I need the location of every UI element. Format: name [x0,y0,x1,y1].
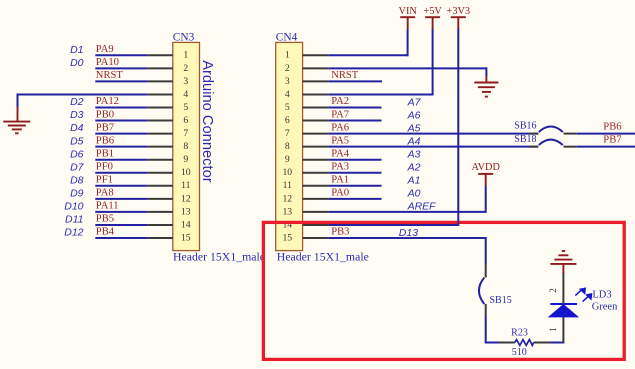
CN3 pin 8 [147,146,173,148]
svg-text:7: 7 [285,128,290,139]
svg-text:SB15: SB15 [490,295,512,306]
svg-text:1: 1 [183,50,188,61]
LED arrows [575,288,591,301]
svg-text:NRST: NRST [96,70,124,81]
svg-text:Arduino Connector: Arduino Connector [199,60,215,183]
svg-text:PA2: PA2 [331,96,349,107]
svg-text:8: 8 [183,141,188,152]
svg-text:Header 15X1_male: Header 15X1_male [173,250,265,264]
svg-text:D7: D7 [70,161,85,173]
wire net PA9 to CN3 pin 1 [95,54,147,56]
svg-text:PB0: PB0 [96,109,114,120]
svg-text:13: 13 [181,206,191,217]
svg-text:D11: D11 [65,214,83,226]
CN3 pin 1 [147,54,173,56]
svg-text:PB1: PB1 [96,148,114,159]
solder bridge SB15 [485,264,487,277]
wire net PA8 to CN3 pin 12 [95,198,147,200]
svg-text:11: 11 [181,180,190,191]
svg-text:A5: A5 [407,122,421,134]
CN3 pin 15 [147,237,173,239]
wire AVDD down [485,186,487,213]
wire corner to R23 [485,342,500,344]
svg-text:PF0: PF0 [96,161,113,172]
ground symbol LED (inverted) [562,250,566,252]
svg-text:4: 4 [285,89,290,100]
svg-text:PB3: PB3 [331,227,349,238]
svg-text:D9: D9 [70,187,84,199]
wire net NRST to CN3 pin 3 [95,80,147,82]
CN3 pin 10 [147,172,173,174]
svg-text:2: 2 [285,63,290,74]
connector CN4 body [276,42,303,250]
svg-text:CN4: CN4 [276,31,298,43]
wire LED anode up [562,317,564,344]
svg-text:PA11: PA11 [96,201,119,212]
svg-text:PA7: PA7 [331,109,349,120]
wire net PA12 to CN3 pin 5 [95,107,147,109]
solder bridge SB18 [530,146,539,148]
ground stub (left) [17,107,19,121]
svg-text:Header 15X1_male: Header 15X1_male [277,250,369,264]
wire VIN down to pin1 [407,29,409,56]
svg-text:D1: D1 [70,44,83,56]
wire net PB5 to CN3 pin 14 [95,224,147,226]
svg-text:14: 14 [181,219,191,230]
svg-text:SB18: SB18 [514,134,536,145]
svg-text:AREF: AREF [407,201,437,213]
svg-text:7: 7 [183,128,188,139]
wire net PA10 to CN3 pin 2 [95,67,147,69]
svg-text:AVDD: AVDD [471,162,500,173]
CN3 pin 13 [147,211,173,213]
wire net PB7 to CN3 pin 7 [95,133,147,135]
svg-text:2: 2 [183,63,188,74]
CN3 pin 7 [147,133,173,135]
wire CN4 pin 3 [329,80,382,82]
svg-text:Green: Green [592,302,618,313]
CN3 pin 3 [147,80,173,82]
CN4 pin 13 [303,211,329,213]
svg-text:6: 6 [285,115,290,126]
svg-text:PA4: PA4 [331,148,350,159]
CN4 pin 2 [303,67,329,69]
CN4 pin 15 [303,237,329,239]
svg-text:R23: R23 [511,327,528,338]
svg-text:D12: D12 [64,227,83,239]
CN4 pin 8 [303,146,329,148]
svg-text:A2: A2 [407,162,421,174]
wire CN4 pin 12 [329,198,382,200]
wire junction down to pin14 row [457,211,459,226]
solder bridge SB16 [530,133,539,135]
svg-text:A6: A6 [407,109,421,121]
svg-text:D2: D2 [70,96,84,108]
svg-text:D0: D0 [70,57,84,69]
CN4 pin 1 [303,54,329,56]
CN4 pin 11 [303,185,329,187]
svg-text:15: 15 [282,232,292,243]
svg-text:D6: D6 [70,148,84,160]
svg-text:PB7: PB7 [96,122,114,133]
svg-text:1: 1 [285,50,290,61]
svg-text:PA8: PA8 [96,188,114,199]
svg-text:10: 10 [181,167,191,178]
CN3 pin 14 [147,224,173,226]
svg-text:9: 9 [285,154,290,165]
wire CN4 pin 4 [329,93,433,95]
svg-text:5: 5 [285,102,290,113]
ground stub (top right) [485,76,487,83]
wire CN4 pin 1 [329,54,408,56]
svg-text:D13: D13 [399,227,418,239]
svg-text:NRST: NRST [331,70,359,81]
svg-text:12: 12 [181,193,191,204]
wire AVDD to +3V3 junction [458,211,485,213]
ground stub (LED) [562,264,564,274]
svg-text:6: 6 [183,115,188,126]
CN4 pin 9 [303,159,329,161]
CN4 pin 5 [303,107,329,109]
svg-text:10: 10 [282,167,292,178]
CN4 pin 14 [303,224,329,226]
svg-text:D4: D4 [70,122,84,134]
wire CN4 pin 6 [329,120,382,122]
wire SB18 to PB7 [577,146,635,148]
connector CN3 body [173,42,200,250]
wire CN4 pin 15 [329,237,486,239]
svg-text:PA5: PA5 [331,135,349,146]
svg-text:CN3: CN3 [173,31,195,43]
svg-text:PA12: PA12 [96,96,119,107]
svg-text:15: 15 [181,232,191,243]
CN4 pin 3 [303,80,329,82]
wire R23 to LED [551,342,564,344]
resistor R23 [499,342,515,344]
wire CN4 pin 10 [329,172,382,174]
wire +3V3 down to AREF row [457,29,459,212]
highlight rectangle [263,222,624,359]
wire CN3 pin4 to ground [18,93,148,95]
svg-text:12: 12 [282,193,292,204]
wire net PB0 to CN3 pin 6 [95,120,147,122]
svg-text:PA0: PA0 [331,188,349,199]
CN4 pin 4 [303,93,329,95]
svg-text:PA10: PA10 [96,57,119,68]
wire CN4 pin 11 [329,185,382,187]
CN4 pin 7 [303,133,329,135]
svg-text:PA3: PA3 [331,161,349,172]
svg-text:3: 3 [183,76,188,87]
svg-text:13: 13 [282,206,292,217]
wire net PB6 to CN3 pin 8 [95,146,147,148]
wire CN4 pin 7 [329,133,539,135]
svg-text:PA9: PA9 [96,44,114,55]
svg-text:3: 3 [285,76,290,87]
svg-text:A0: A0 [407,188,421,200]
wire CN4 pin 13 [329,211,459,213]
wire CN4 pin 9 [329,159,382,161]
svg-text:5: 5 [183,102,188,113]
svg-text:PA1: PA1 [331,175,349,186]
svg-text:8: 8 [285,141,290,152]
svg-text:PB6: PB6 [603,121,621,132]
wire ground drop [17,93,19,107]
svg-text:510: 510 [512,347,527,358]
svg-text:A4: A4 [407,135,421,147]
LED LD3 [549,305,578,317]
wire LED cathode up [562,273,564,304]
CN4 pin 10 [303,172,329,174]
svg-text:PB6: PB6 [96,135,114,146]
svg-text:2: 2 [548,288,558,293]
svg-text:A1: A1 [407,175,421,187]
ground symbol left [3,121,30,123]
wire CN4 pin 5 [329,107,382,109]
CN3 pin 11 [147,185,173,187]
svg-text:+3V3: +3V3 [447,6,471,17]
wire CN4 pin 14 [329,224,459,226]
wire net PA11 to CN3 pin 13 [95,211,147,213]
wire SB15 to R23 row [485,316,487,342]
wire net PB1 to CN3 pin 9 [95,159,147,161]
wire D13 down to SB15 [485,237,487,265]
wire net PF1 to CN3 pin 11 [95,185,147,187]
CN3 pin 9 [147,159,173,161]
svg-text:PB4: PB4 [96,227,115,238]
wire SB16 to PB6 [577,133,635,135]
CN4 pin 6 [303,120,329,122]
svg-text:11: 11 [283,180,292,191]
svg-text:PB7: PB7 [603,134,621,145]
svg-text:PB5: PB5 [96,214,114,225]
svg-text:PA6: PA6 [331,122,349,133]
wire net PB4 to CN3 pin 15 [95,237,147,239]
svg-text:+5V: +5V [423,6,442,17]
svg-text:4: 4 [183,89,188,100]
wire +5V down to pin4 [432,29,434,96]
wire net PF0 to CN3 pin 10 [95,172,147,174]
CN3 pin 6 [147,120,173,122]
svg-text:LD3: LD3 [592,289,611,300]
CN3 pin 4 [147,93,173,95]
svg-text:A3: A3 [407,149,421,161]
svg-text:1: 1 [548,327,558,332]
svg-text:9: 9 [183,154,188,165]
svg-text:D5: D5 [70,135,84,147]
CN4 pin 12 [303,198,329,200]
svg-text:D3: D3 [70,109,84,121]
ground symbol top right [474,82,498,84]
CN3 pin 5 [147,107,173,109]
wire CN4 pin 2 [329,67,487,69]
CN3 pin 2 [147,67,173,69]
svg-text:D10: D10 [64,201,83,213]
CN3 pin 12 [147,198,173,200]
svg-text:VIN: VIN [399,6,418,17]
svg-text:A7: A7 [407,96,422,108]
svg-text:PF1: PF1 [96,175,113,186]
svg-text:SB16: SB16 [514,121,536,132]
svg-text:D8: D8 [70,174,84,186]
wire pin2 row down to ground [485,67,487,76]
wire CN4 pin 8 [329,146,539,148]
